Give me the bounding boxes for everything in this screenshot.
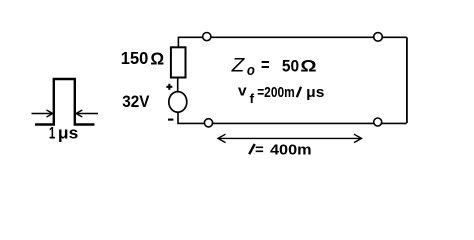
- wire: top conductor: [178, 37, 406, 47]
- resistor R 150 ohm: [171, 47, 186, 77]
- wire: right end vertical: [406, 37, 408, 123]
- terminal node bottom-right: [374, 118, 382, 126]
- terminal node top-right: [374, 33, 383, 42]
- svg-text:μs: μs: [306, 85, 324, 101]
- svg-text:Z: Z: [231, 56, 246, 77]
- svg-text:1: 1: [49, 125, 55, 143]
- svg-text:=: =: [255, 142, 264, 158]
- italic l in length label: [249, 144, 255, 154]
- svg-text:f: f: [250, 91, 255, 106]
- svg-text:Ω: Ω: [300, 57, 316, 75]
- svg-text:=: =: [261, 55, 270, 75]
- terminal node bottom-left: [204, 119, 212, 127]
- source V1 32V: [169, 92, 187, 113]
- pulse width arrow left: [32, 110, 53, 117]
- svg-text:32V: 32V: [122, 92, 150, 111]
- svg-text:=200m: =200m: [257, 85, 295, 101]
- pulse waveform baseline and 1us pulse: [35, 79, 95, 125]
- svg-text:50: 50: [282, 57, 299, 75]
- svg-text:400m: 400m: [270, 142, 312, 159]
- length dimension arrow: [218, 134, 362, 142]
- source minus sign: [168, 119, 173, 121]
- wire: resistor to source: [177, 77, 179, 92]
- slash in m/us: [297, 87, 301, 97]
- svg-text:μs: μs: [58, 125, 78, 143]
- terminal node top-left: [203, 33, 211, 41]
- svg-text:Ω: Ω: [150, 49, 164, 69]
- source plus sign: [166, 84, 172, 90]
- pulse width arrow right: [76, 110, 98, 117]
- wire: bottom conductor: [178, 112, 407, 123]
- svg-text:150: 150: [121, 48, 149, 68]
- svg-text:v: v: [238, 83, 247, 99]
- svg-text:o: o: [247, 62, 255, 79]
